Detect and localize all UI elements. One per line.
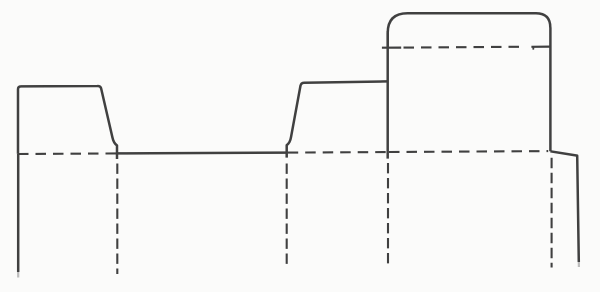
vertical crease between panel 1 and panel 2 (dashed) <box>116 164 118 275</box>
vertical crease between panel 4 and glue flap (dashed) <box>551 158 553 268</box>
main fold line under lid panel (dashed crease) <box>389 150 548 153</box>
glue flap top slant and right edge (cut) <box>550 151 578 262</box>
main fold line under flap B (dashed crease) <box>288 151 387 154</box>
dust flap B outline (second flap, cut line) <box>287 81 388 157</box>
right shoulder nub (small cut) <box>532 47 534 50</box>
vertical crease between panel 2 and panel 3 (dashed) <box>286 164 288 268</box>
tuck flap outline (rounded top flap, cut line) <box>388 13 551 48</box>
tuck flap right shoulder tick (cut) <box>531 45 551 47</box>
tuck flap left shoulder tick (cut) <box>382 46 401 48</box>
left sheet edge below fold (cut) <box>17 154 20 272</box>
dust flap A outline (top-left flap, cut line) <box>18 86 117 159</box>
tuck fold line (dashed crease) <box>404 46 523 49</box>
left edge faded scan tail <box>17 272 19 278</box>
top cut edge of panel 2 (solid segment of main fold level) <box>117 151 287 154</box>
main fold line under flap A (dashed crease) <box>18 152 117 155</box>
lid panel left edge (cut, crosses main fold with nub) <box>386 31 389 159</box>
vertical crease between panel 3 and panel 4 (dashed) <box>387 163 389 266</box>
right edge faded scan tail <box>578 262 580 267</box>
lid panel right edge (cut) <box>549 28 552 152</box>
